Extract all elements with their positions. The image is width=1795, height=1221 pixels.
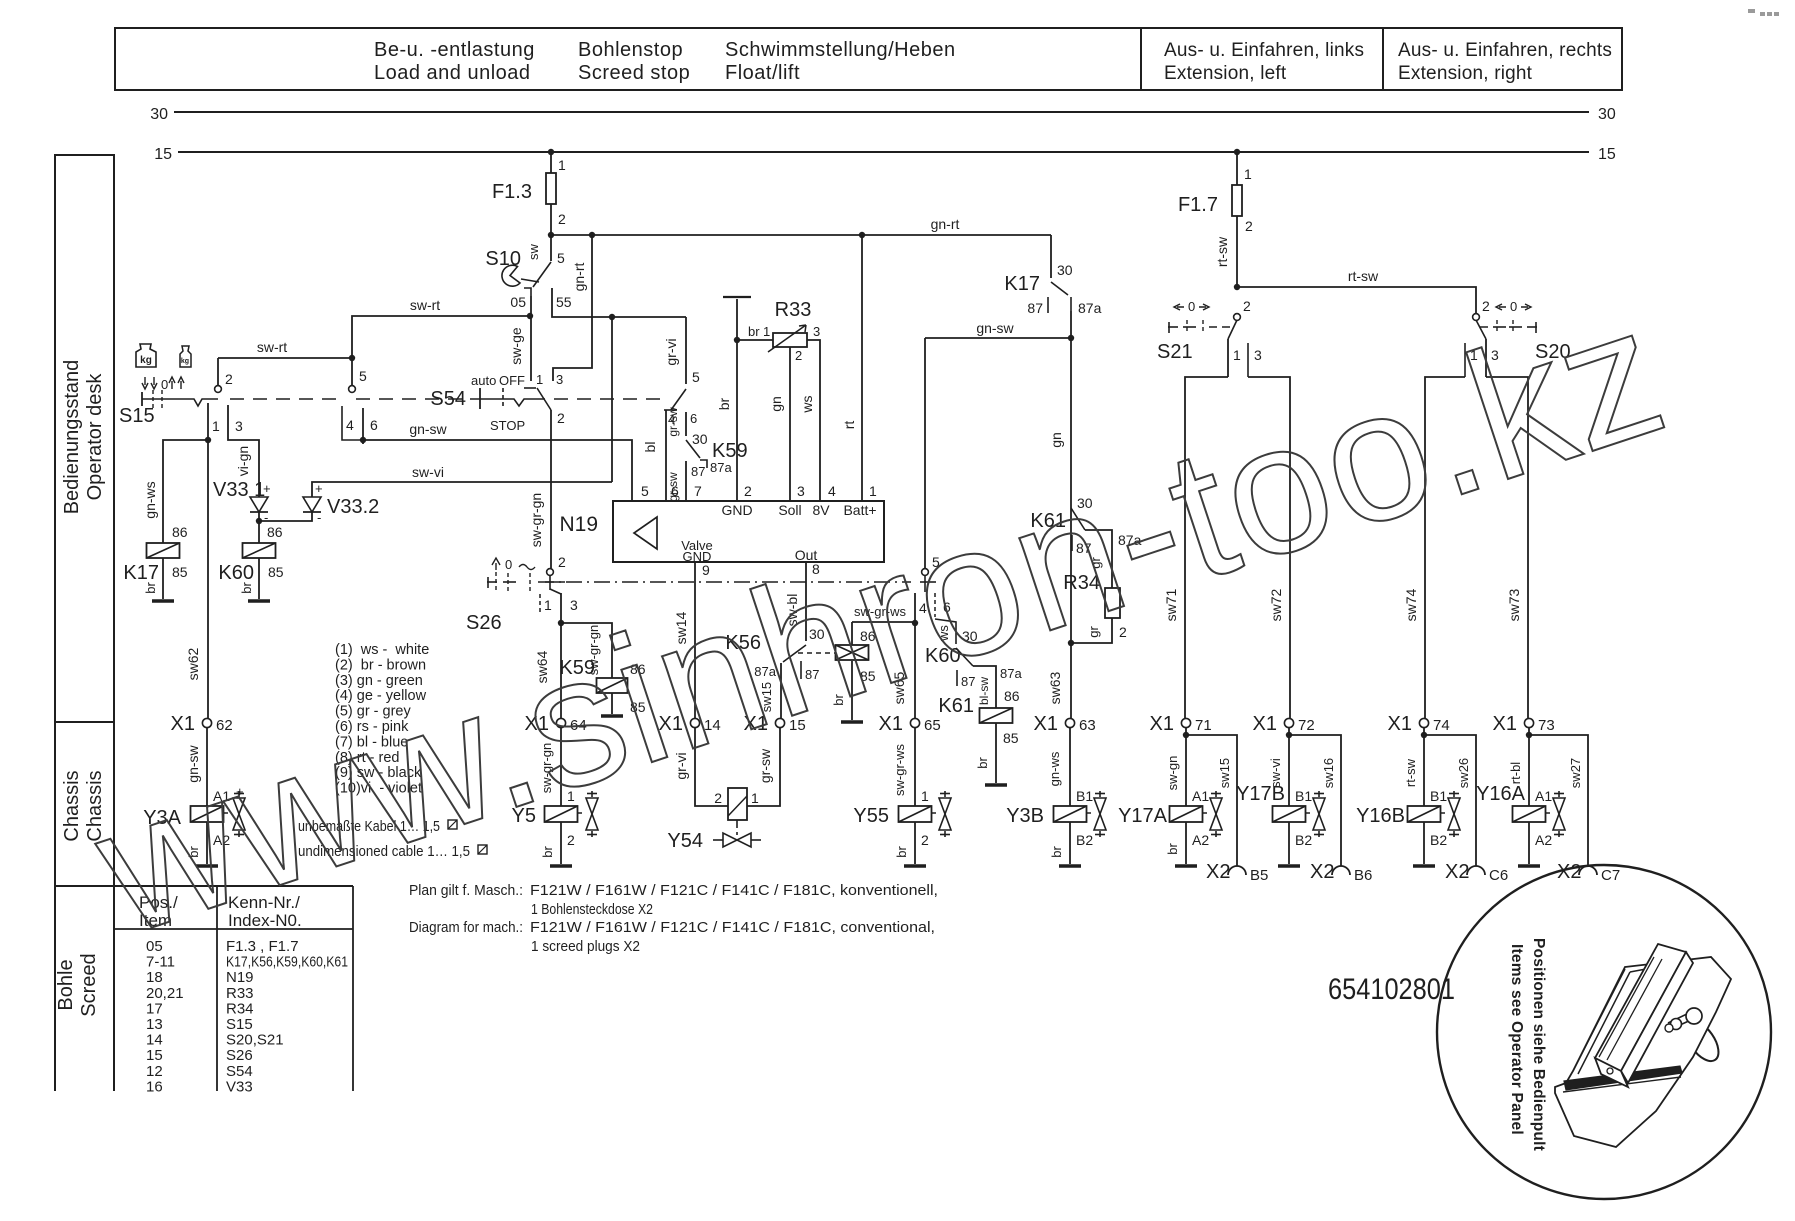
svg-text:Positionen siehe Bedienpult: Positionen siehe Bedienpult	[1530, 938, 1547, 1151]
svg-text:05: 05	[510, 294, 526, 310]
node X1 71 branch	[1183, 732, 1189, 738]
svg-text:Items see Operator Panel: Items see Operator Panel	[1508, 944, 1525, 1135]
svg-text:K17,K56,K59,K60,K61: K17,K56,K59,K60,K61	[226, 954, 348, 971]
wire sw62 to X1.62	[207, 440, 209, 718]
svg-text:30: 30	[1598, 106, 1616, 123]
svg-text:br: br	[748, 324, 760, 339]
node rt branch	[859, 232, 865, 238]
svg-text:K17: K17	[123, 562, 159, 584]
svg-text:K60: K60	[218, 562, 254, 584]
wire Y3B to ground	[1069, 822, 1071, 864]
svg-text:gn-rt: gn-rt	[931, 216, 960, 232]
svg-text:sw-vi: sw-vi	[412, 464, 444, 480]
svg-text:V33: V33	[226, 1078, 253, 1095]
svg-text:X2: X2	[1310, 861, 1334, 883]
connector X1 71	[1181, 718, 1190, 727]
svg-text:87: 87	[1027, 300, 1043, 316]
svg-text:8V: 8V	[812, 502, 830, 518]
svg-text:1 screed plugs X2: 1 screed plugs X2	[531, 938, 640, 955]
wire gn to K61 contact	[1070, 338, 1072, 505]
svg-text:71: 71	[1195, 717, 1212, 734]
svg-text:Soll: Soll	[778, 502, 801, 518]
solenoid Y16B	[1408, 806, 1441, 822]
wire gr-sw S54.6 to K59 contact	[685, 412, 687, 436]
wire gn-rt to S54 pin3	[553, 235, 592, 381]
parts table frame	[114, 885, 353, 887]
svg-text:gn: gn	[768, 396, 784, 412]
ground K60	[248, 599, 270, 603]
weight symbol small kg	[180, 346, 191, 367]
svg-text:12: 12	[146, 1063, 163, 1080]
wire bl S54.4 to N19 pin6	[665, 410, 667, 501]
wire rt to N19 Batt+	[861, 235, 863, 501]
svg-text:87: 87	[691, 464, 705, 479]
svg-text:-: -	[317, 510, 321, 525]
wire K59 85 to ground	[611, 693, 613, 714]
wire rt-sw to Y16B coil	[1423, 735, 1425, 806]
node S15 pin1 junction	[205, 437, 211, 443]
wire sw65 to X1.65	[914, 623, 916, 718]
node diode junction	[256, 518, 262, 524]
wire gr to R34	[1085, 530, 1112, 588]
svg-text:br: br	[143, 582, 158, 594]
svg-text:sw-gr-ws: sw-gr-ws	[892, 744, 907, 796]
relay coil K59	[597, 678, 628, 693]
node sw-rt to sw-ge	[527, 313, 533, 319]
wire sw73	[1486, 377, 1528, 718]
wire gn R33 wiper to N19 pin3	[789, 347, 791, 501]
switch S21	[1234, 314, 1241, 321]
wire Y55 to ground	[914, 822, 916, 864]
S21 pin1 wire	[1227, 339, 1229, 377]
wire V33.2 cathode to junction	[259, 512, 312, 521]
svg-text:B2: B2	[1295, 832, 1312, 848]
wire sw14 N19 pin9 to X1.14	[694, 562, 696, 718]
ground K56	[841, 720, 863, 724]
svg-text:2: 2	[225, 371, 233, 387]
connector X1 15	[775, 718, 784, 727]
valve Y17B symbol	[1318, 791, 1320, 797]
svg-text:85: 85	[1003, 730, 1019, 746]
svg-text:F121W / F161W / F121C / F141C: F121W / F161W / F121C / F141C / F181C, c…	[530, 919, 935, 936]
svg-text:2: 2	[714, 790, 722, 806]
svg-text:Bohlenstop: Bohlenstop	[578, 39, 683, 61]
wire Y5 to ground	[560, 822, 562, 864]
ground Y5	[550, 864, 572, 868]
svg-text:73: 73	[1538, 717, 1555, 734]
svg-text:gr-sw: gr-sw	[666, 472, 680, 502]
svg-text:1 Bohlensteckdose X2: 1 Bohlensteckdose X2	[531, 901, 653, 918]
svg-text:sw-ge: sw-ge	[508, 327, 524, 365]
svg-text:sw26: sw26	[1456, 758, 1471, 788]
node gn junction	[1068, 335, 1074, 341]
wire junction to K60 coil	[258, 521, 260, 543]
ground K61	[985, 783, 1007, 787]
valve Y3B symbol	[1099, 791, 1101, 797]
svg-text:rt-bl: rt-bl	[1508, 762, 1523, 785]
svg-text:sw-rt: sw-rt	[410, 297, 440, 313]
svg-text:Y17A: Y17A	[1118, 805, 1168, 827]
svg-text:X1: X1	[1034, 713, 1058, 735]
svg-text:13: 13	[146, 1016, 163, 1033]
svg-text:sw-rt: sw-rt	[257, 339, 287, 355]
wire sw-rt upper	[352, 316, 530, 358]
svg-text:GND: GND	[721, 502, 752, 518]
module N19	[613, 501, 884, 562]
wire gr-sw K59.87 to N19 pin7	[685, 461, 687, 501]
S20 pin3 wire	[1485, 339, 1487, 377]
node R34 return	[1068, 640, 1074, 646]
wire sw16 branch to X2 B6	[1289, 735, 1341, 866]
svg-text:86: 86	[1004, 688, 1020, 704]
wire gn-ws branch	[163, 440, 208, 543]
wire gr-sw to Y54	[747, 728, 780, 806]
wire K17.87a down	[1070, 311, 1072, 338]
svg-text:ws: ws	[799, 395, 815, 413]
solenoid Y17A	[1170, 806, 1203, 822]
svg-text:2: 2	[558, 554, 566, 570]
svg-text:Load and unload: Load and unload	[374, 62, 531, 84]
wire Y17B to ground	[1288, 822, 1290, 864]
S21 pin3 wire	[1247, 343, 1249, 377]
svg-text:20,21: 20,21	[146, 985, 184, 1002]
svg-text:gr-vi: gr-vi	[663, 338, 679, 365]
header divider left	[1140, 28, 1142, 90]
svg-text:S20,S21: S20,S21	[226, 1032, 284, 1049]
valve Y55 symbol	[944, 791, 946, 797]
S26 pin4 wire	[914, 593, 916, 623]
svg-text:F121W / F161W / F121C / F141C: F121W / F161W / F121C / F141C / F181C, k…	[530, 882, 938, 899]
mech dash-dot link S26	[538, 581, 911, 583]
svg-text:+: +	[263, 481, 271, 496]
svg-text:rt-sw: rt-sw	[1214, 236, 1230, 267]
S26 pin1 dashed stub	[539, 594, 541, 614]
node gn-rt branch	[589, 232, 595, 238]
svg-text:X1: X1	[171, 713, 195, 735]
bus 30	[174, 111, 1589, 113]
wire K17 85 to ground	[162, 558, 164, 599]
svg-text:6: 6	[690, 411, 697, 426]
node X1 74 branch	[1421, 732, 1427, 738]
svg-text:1: 1	[921, 788, 929, 804]
svg-text:B1: B1	[1076, 788, 1093, 804]
svg-text:sw74: sw74	[1403, 588, 1419, 621]
svg-text:5: 5	[557, 250, 565, 266]
connector X1 65	[910, 718, 919, 727]
ground Y55	[904, 864, 926, 868]
wire gn-sw horizontal	[363, 440, 632, 501]
svg-text:Y16A: Y16A	[1476, 783, 1526, 805]
svg-text:3: 3	[813, 324, 820, 339]
svg-text:85: 85	[172, 564, 188, 580]
svg-text:1: 1	[544, 597, 552, 613]
switch S54 pole2	[685, 317, 687, 384]
svg-text:3: 3	[797, 483, 805, 499]
ground Y3A	[196, 864, 218, 868]
svg-text:6: 6	[370, 417, 378, 433]
svg-text:gr-sw: gr-sw	[666, 407, 680, 437]
wire sw15 K56.87a to X1.15	[780, 663, 782, 718]
ground Y17B	[1278, 864, 1300, 868]
wire sw63 to X1.63	[1070, 505, 1072, 718]
svg-text:Operator desk: Operator desk	[84, 373, 106, 501]
header divider right	[1382, 28, 1384, 90]
solenoid Y54	[728, 788, 747, 820]
ground Y17A	[1175, 864, 1197, 868]
valve Y16B symbol	[1453, 791, 1455, 797]
svg-text:A1: A1	[1192, 788, 1209, 804]
node X1 73 branch	[1526, 732, 1532, 738]
svg-text:gn: gn	[1048, 432, 1064, 448]
svg-text:sw-gn: sw-gn	[1165, 756, 1180, 791]
wire Y16B to ground	[1423, 822, 1425, 864]
svg-text:Bohle: Bohle	[55, 959, 77, 1010]
svg-text:1: 1	[1233, 347, 1241, 363]
wire Y3A to ground	[206, 822, 208, 864]
svg-text:3: 3	[235, 418, 243, 434]
svg-text:Float/lift: Float/lift	[725, 62, 800, 84]
svg-text:0: 0	[161, 377, 168, 392]
svg-text:Extension, right: Extension, right	[1398, 63, 1533, 84]
solenoid Y16A	[1513, 806, 1546, 822]
diode V33.2	[303, 497, 321, 512]
bus 15	[178, 151, 1589, 153]
svg-text:0: 0	[1188, 299, 1195, 314]
svg-text:sw16: sw16	[1321, 758, 1336, 788]
S26 arrow and wave symbols	[492, 558, 500, 570]
wire gn-sw to Y3A	[206, 728, 208, 806]
svg-text:B6: B6	[1354, 867, 1372, 884]
svg-text:1: 1	[536, 372, 543, 387]
svg-text:sw62: sw62	[185, 647, 201, 680]
valve Y5 symbol	[591, 791, 593, 797]
svg-text:auto: auto	[471, 373, 496, 388]
wire sw71	[1185, 377, 1228, 718]
node F1.3 pin2	[548, 232, 554, 238]
valve Y17A symbol	[1215, 791, 1217, 797]
svg-text:gn-ws: gn-ws	[1047, 751, 1062, 786]
svg-text:Schwimmstellung/Heben: Schwimmstellung/Heben	[725, 39, 956, 61]
svg-text:K17: K17	[1004, 273, 1040, 295]
wire br N19 pin2 with top bar	[736, 299, 738, 501]
relay coil K56	[836, 645, 869, 660]
svg-text:4: 4	[346, 417, 354, 433]
svg-text:5: 5	[359, 368, 367, 384]
switch S20	[1473, 314, 1480, 321]
svg-text:N19: N19	[226, 969, 254, 986]
S20 pin1 wire	[1464, 343, 1466, 377]
svg-text:kg: kg	[181, 358, 189, 365]
relay coil K61	[980, 708, 1013, 723]
svg-text:3: 3	[1254, 347, 1262, 363]
svg-text:2: 2	[744, 483, 752, 499]
svg-text:654102801: 654102801	[1328, 973, 1455, 1006]
svg-text:Be-u. -entlastung: Be-u. -entlastung	[374, 39, 535, 61]
svg-text:14: 14	[146, 1032, 163, 1049]
svg-text:5: 5	[641, 483, 649, 499]
wire K61.85 to ground	[995, 723, 997, 783]
svg-text:X2: X2	[1445, 861, 1469, 883]
wire sw-vi from V33.2	[312, 482, 612, 497]
svg-text:X2: X2	[1557, 861, 1581, 883]
wire sw-gn to Y17A coil	[1185, 735, 1187, 806]
svg-text:4: 4	[828, 483, 836, 499]
connector X1 62	[202, 718, 211, 727]
svg-text:(1) ws - white: (1) ws - white	[335, 642, 429, 658]
svg-text:86: 86	[172, 524, 188, 540]
svg-text:2: 2	[795, 348, 802, 363]
node rt-sw branch	[1234, 284, 1240, 290]
svg-text:-: -	[264, 510, 268, 525]
svg-text:1: 1	[751, 790, 759, 806]
wire gr R34 to node	[1071, 618, 1112, 643]
svg-text:86: 86	[267, 524, 283, 540]
relay coil K17	[147, 543, 180, 558]
wire K60 85 to ground	[258, 558, 260, 599]
svg-text:30: 30	[692, 431, 708, 447]
svg-text:A2: A2	[1535, 832, 1552, 848]
svg-text:Y55: Y55	[853, 805, 889, 827]
svg-text:Aus- u. Einfahren, rechts: Aus- u. Einfahren, rechts	[1398, 40, 1612, 61]
fuse F1.7	[1236, 152, 1238, 185]
relay coil K60	[243, 543, 276, 558]
S26 pole 5	[922, 569, 929, 576]
svg-text:X1: X1	[1493, 713, 1517, 735]
S26 pin6 dashed	[934, 593, 936, 617]
mech dash K56	[798, 652, 836, 654]
connector X1 72	[1284, 718, 1293, 727]
svg-text:5: 5	[692, 369, 700, 385]
svg-text:STOP: STOP	[490, 418, 525, 433]
svg-text:85: 85	[268, 564, 284, 580]
svg-text:X1: X1	[1388, 713, 1412, 735]
svg-text:2: 2	[558, 211, 566, 227]
svg-text:Screed stop: Screed stop	[578, 62, 690, 84]
svg-text:R33: R33	[226, 985, 254, 1002]
svg-text:N19: N19	[559, 513, 598, 536]
valve Y54	[723, 833, 737, 847]
svg-text:2: 2	[557, 410, 565, 426]
valve Y3A symbol	[238, 791, 240, 797]
node R33 branch	[734, 337, 740, 343]
solenoid Y5	[545, 806, 578, 822]
node S26 pin3 junction	[558, 620, 564, 626]
svg-text:gn-ws: gn-ws	[142, 481, 158, 518]
svg-text:R33: R33	[775, 299, 812, 321]
wire sw-ge S10.05 to S54.1	[530, 296, 532, 381]
wire sw-gr-gn to Y5	[560, 728, 562, 806]
svg-text:1: 1	[1244, 166, 1252, 182]
wire sw72	[1248, 377, 1290, 718]
connector X1 64	[556, 718, 565, 727]
svg-text:br: br	[975, 757, 990, 769]
svg-text:87a: 87a	[1078, 300, 1102, 316]
svg-text:X1: X1	[1253, 713, 1277, 735]
svg-text:Y16B: Y16B	[1356, 805, 1405, 827]
wire sw15 branch to X2 B5	[1186, 735, 1237, 866]
ground Y16B	[1413, 864, 1435, 868]
S15 arrows down 0 up	[142, 377, 148, 389]
svg-text:S10: S10	[485, 248, 521, 270]
ground K59	[601, 714, 623, 718]
ground Y16A	[1518, 864, 1540, 868]
resistor R34	[1105, 588, 1120, 618]
valve Y16A symbol	[1558, 791, 1560, 797]
svg-text:Plan gilt f. Masch.:: Plan gilt f. Masch.:	[409, 882, 523, 899]
resistor R33	[737, 339, 773, 341]
svg-text:0: 0	[505, 557, 512, 572]
svg-text:br: br	[894, 846, 909, 858]
svg-text:1: 1	[763, 324, 770, 339]
svg-text:55: 55	[556, 294, 572, 310]
operator panel circle	[1437, 865, 1771, 1199]
wire gn-rt horizontal	[551, 234, 1051, 236]
svg-text:Screed: Screed	[78, 953, 100, 1016]
svg-text:16: 16	[146, 1078, 163, 1095]
connector X1 63	[1065, 718, 1074, 727]
svg-text:br: br	[1165, 843, 1180, 855]
svg-text:S26: S26	[226, 1047, 253, 1064]
sidebar frame	[55, 155, 114, 1091]
wire rt-bl to Y16A coil	[1528, 735, 1530, 806]
solenoid Y3B	[1054, 806, 1087, 822]
S15 contact 5	[349, 386, 356, 393]
wire sw-vi riser	[611, 317, 613, 482]
weight symbol large kg	[136, 344, 156, 367]
svg-text:30: 30	[150, 106, 168, 123]
svg-text:18: 18	[146, 969, 163, 986]
svg-text:72: 72	[1298, 717, 1315, 734]
svg-text:S26: S26	[466, 612, 502, 634]
connector X1 14	[690, 718, 699, 727]
svg-text:3: 3	[556, 372, 563, 387]
fuse F1.3	[550, 152, 552, 173]
wire sw-bl N19 pin8 to K56	[805, 562, 807, 641]
svg-text:30: 30	[1057, 262, 1073, 278]
svg-text:S15: S15	[119, 405, 155, 427]
svg-text:br: br	[239, 582, 254, 594]
svg-text:OFF: OFF	[499, 373, 525, 388]
header table frame	[115, 28, 1622, 90]
relay contact K17	[1050, 235, 1052, 278]
svg-text:B2: B2	[1430, 832, 1447, 848]
node sw-rt corner	[349, 355, 355, 361]
svg-text:15: 15	[1598, 146, 1616, 163]
svg-text:63: 63	[1079, 717, 1096, 734]
solenoid Y3A	[191, 806, 224, 822]
svg-text:gn-sw: gn-sw	[409, 421, 447, 437]
wire ws R33 to N19 pin4	[807, 340, 820, 501]
wire to K59 coil	[561, 623, 612, 678]
mech dashed link S15-S54	[230, 398, 345, 400]
svg-text:B1: B1	[1295, 788, 1312, 804]
svg-text:S15: S15	[226, 1016, 253, 1033]
svg-text:S54: S54	[226, 1063, 253, 1080]
wire sw74	[1425, 377, 1465, 718]
svg-text:15: 15	[146, 1047, 163, 1064]
wire Y17A to ground	[1185, 822, 1187, 864]
svg-text:sw-gr-gn: sw-gr-gn	[528, 493, 544, 547]
node gn-sw start	[360, 437, 366, 443]
operator panel isometric drawing	[1679, 1015, 1725, 1066]
svg-text:bl: bl	[642, 442, 658, 453]
node sw65 junction	[912, 620, 918, 626]
svg-text:2: 2	[1243, 298, 1251, 314]
wire sw-rt lower	[218, 357, 352, 359]
svg-text:1: 1	[869, 483, 877, 499]
svg-text:Y17B: Y17B	[1236, 783, 1285, 805]
svg-text:S21: S21	[1157, 341, 1193, 363]
